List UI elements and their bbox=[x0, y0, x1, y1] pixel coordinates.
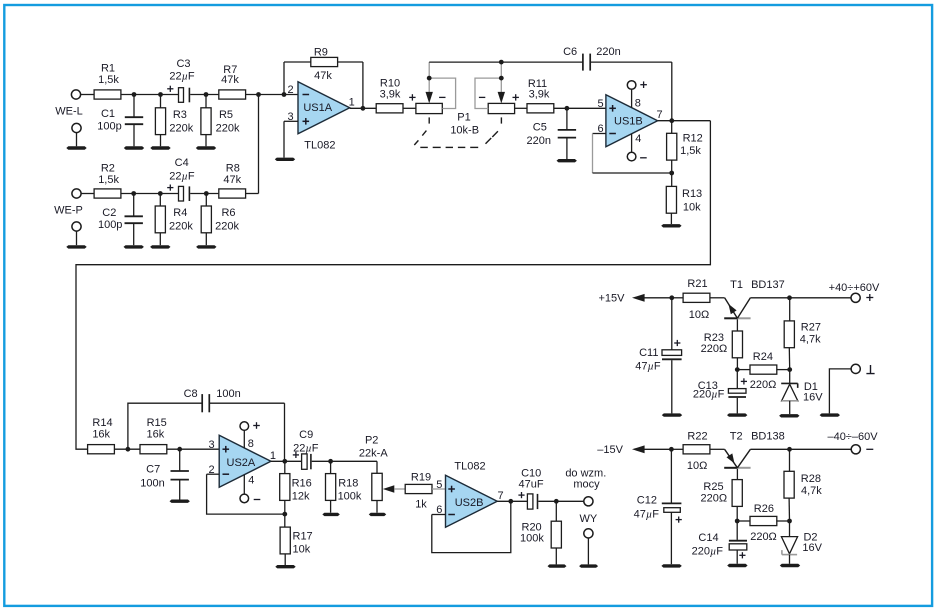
svg-text:220µF: 220µF bbox=[692, 546, 724, 558]
node junction R18 bbox=[328, 459, 333, 464]
svg-text:C5: C5 bbox=[533, 122, 547, 134]
ground bbox=[124, 146, 144, 149]
svg-text:R14: R14 bbox=[92, 417, 112, 429]
wire C8 feedback top bbox=[128, 403, 202, 449]
svg-text:220k: 220k bbox=[169, 221, 193, 233]
resistor R1 bbox=[94, 90, 121, 99]
wire bbox=[515, 107, 528, 109]
svg-text:C6: C6 bbox=[563, 46, 577, 58]
svg-text:P1: P1 bbox=[457, 111, 470, 123]
node line B junction bbox=[499, 60, 504, 65]
minus mark bbox=[439, 96, 445, 98]
node junction R12 R13 bbox=[669, 171, 674, 176]
wire bbox=[190, 193, 218, 195]
potentiometer P1 section a bbox=[416, 103, 442, 113]
wire bbox=[312, 460, 377, 462]
op-amp US2A bbox=[219, 435, 271, 487]
plus mark bbox=[513, 96, 519, 98]
ground bbox=[150, 245, 170, 248]
terminal chassis ground bbox=[851, 364, 860, 373]
node junction R6 bbox=[204, 191, 209, 196]
svg-text:R12: R12 bbox=[683, 133, 703, 145]
svg-text:7: 7 bbox=[498, 490, 504, 502]
svg-text:R27: R27 bbox=[801, 321, 821, 333]
wire pin 6 feedback bbox=[593, 133, 606, 135]
svg-text:C4: C4 bbox=[175, 157, 189, 169]
node junction R25 R26 C14 bbox=[735, 519, 740, 524]
P1a wiper bbox=[428, 62, 430, 92]
svg-text:US2A: US2A bbox=[227, 457, 256, 469]
ground bbox=[727, 413, 747, 416]
svg-text:1: 1 bbox=[270, 450, 276, 462]
svg-text:P2: P2 bbox=[365, 435, 378, 447]
wire from R8 up to top row bbox=[246, 193, 259, 195]
capacitor C3 electrolytic bbox=[167, 88, 173, 90]
node junction C8 tap bbox=[126, 447, 131, 452]
resistor R13 bbox=[671, 173, 673, 187]
svg-text:10k-B: 10k-B bbox=[450, 125, 479, 137]
resistor R9 bbox=[311, 57, 338, 66]
wire bbox=[121, 193, 179, 195]
capacitor C11 electrolytic bbox=[671, 298, 673, 350]
svg-text:R2: R2 bbox=[101, 162, 115, 174]
node wiper junction bbox=[427, 76, 432, 81]
pin 8 supply stub bbox=[631, 89, 633, 107]
wire R28 bbox=[789, 449, 791, 471]
resistor R18 bbox=[330, 461, 332, 473]
wire bbox=[81, 94, 95, 96]
zener diode D2 bbox=[789, 521, 791, 537]
svg-text:220k: 220k bbox=[216, 122, 240, 134]
wire T1 collector to rail bbox=[750, 297, 851, 299]
svg-text:220k: 220k bbox=[169, 122, 193, 134]
svg-text:US1B: US1B bbox=[614, 115, 643, 127]
node junction R3 bbox=[158, 92, 163, 97]
svg-text:C2: C2 bbox=[102, 207, 116, 219]
svg-text:+40÷+60V: +40÷+60V bbox=[829, 282, 880, 294]
resistor R10 bbox=[376, 104, 403, 113]
resistor R6 bbox=[205, 194, 207, 207]
svg-text:47µF: 47µF bbox=[635, 361, 661, 373]
P1b wiper bbox=[500, 62, 502, 92]
svg-text:220µF: 220µF bbox=[693, 388, 725, 400]
ground bbox=[275, 158, 295, 161]
wire bbox=[81, 193, 94, 195]
arrow +15V bbox=[632, 294, 645, 302]
wire R27 bbox=[789, 298, 791, 321]
resistor R22 bbox=[671, 448, 683, 450]
ground bbox=[548, 564, 567, 567]
svg-text:+15V: +15V bbox=[599, 293, 626, 305]
capacitor C10 electrolytic bbox=[518, 494, 524, 496]
ground bbox=[661, 564, 681, 567]
svg-text:220Ω: 220Ω bbox=[750, 531, 777, 543]
svg-text:22µF: 22µF bbox=[293, 443, 319, 455]
node junction R23 R24 C13 bbox=[735, 367, 740, 372]
svg-text:–40÷–60V: –40÷–60V bbox=[827, 431, 878, 443]
resistor R5 bbox=[205, 95, 207, 108]
arrow -15V bbox=[632, 445, 645, 453]
resistor R17 bbox=[284, 514, 286, 527]
svg-text:10k: 10k bbox=[293, 544, 311, 556]
svg-text:R3: R3 bbox=[173, 109, 187, 121]
svg-text:–15V: –15V bbox=[597, 444, 623, 456]
svg-text:C1: C1 bbox=[101, 108, 115, 120]
resistor R16 bbox=[284, 461, 286, 473]
svg-text:R21: R21 bbox=[687, 278, 707, 290]
wire T2 collector to rail bbox=[750, 448, 851, 450]
capacitor C7 bbox=[179, 449, 181, 471]
output ground terminal bbox=[584, 529, 593, 538]
svg-text:R28: R28 bbox=[801, 473, 821, 485]
node junction output US1B bbox=[669, 118, 674, 123]
node junction feedback R9 bbox=[282, 92, 287, 97]
resistor R8 bbox=[219, 189, 246, 198]
resistor R20 bbox=[555, 501, 557, 521]
svg-text:1,5k: 1,5k bbox=[680, 145, 701, 157]
resistor R12 bbox=[671, 121, 673, 134]
resistor R14 bbox=[88, 445, 115, 454]
svg-text:R4: R4 bbox=[173, 207, 187, 219]
svg-text:4: 4 bbox=[635, 133, 641, 145]
resistor R7 bbox=[219, 90, 246, 99]
svg-text:R16: R16 bbox=[292, 478, 312, 490]
svg-text:220Ω: 220Ω bbox=[701, 343, 728, 355]
resistor R3 bbox=[160, 95, 162, 108]
supply terminal circle - bbox=[240, 494, 249, 503]
gang dashed link P1 bbox=[428, 117, 430, 123]
svg-text:3,9k: 3,9k bbox=[529, 89, 550, 101]
svg-text:mocy: mocy bbox=[573, 479, 600, 491]
wire line B from wiper P1a bbox=[429, 61, 583, 63]
svg-text:C14: C14 bbox=[698, 532, 718, 544]
ground bbox=[727, 564, 747, 567]
capacitor C4 electrolytic bbox=[167, 187, 173, 189]
ground bbox=[662, 413, 682, 416]
wire pin 2 feedback bbox=[207, 473, 220, 475]
resistor R4 bbox=[159, 194, 161, 207]
output terminal WY bbox=[584, 497, 593, 506]
svg-text:R20: R20 bbox=[522, 521, 542, 533]
wire bbox=[114, 448, 140, 450]
pin 4 supply stub bbox=[631, 134, 633, 153]
wire R22 to T2 emitter bbox=[710, 448, 725, 450]
wire R11 to US1B pin 5 bbox=[554, 107, 606, 109]
supply terminal circle - bbox=[627, 152, 636, 161]
svg-text:5: 5 bbox=[597, 98, 603, 110]
svg-text:3: 3 bbox=[208, 439, 214, 451]
resistor R19 bbox=[405, 484, 432, 493]
node junction R28 bbox=[787, 447, 792, 452]
P2 wiper arrow bbox=[383, 485, 395, 492]
transistor T2 base stub bbox=[736, 469, 738, 480]
node junction C1 bbox=[132, 92, 137, 97]
terminal -40/-60V bbox=[851, 445, 860, 454]
capacitor C6 bbox=[582, 54, 584, 71]
zener diode D1 bbox=[789, 370, 791, 384]
svg-text:1,5k: 1,5k bbox=[98, 174, 119, 186]
svg-text:100n: 100n bbox=[140, 477, 164, 489]
capacitor C8 bbox=[201, 394, 203, 412]
capacitor C2 bbox=[133, 194, 135, 217]
svg-text:12k: 12k bbox=[292, 491, 310, 503]
capacitor C9 electrolytic bbox=[293, 454, 299, 456]
wire bbox=[538, 500, 584, 502]
svg-text:C8: C8 bbox=[184, 388, 198, 400]
ground bbox=[661, 224, 681, 227]
resistor R26 bbox=[737, 520, 750, 522]
feedback wire pin2 to R9 bbox=[283, 62, 285, 95]
P1a wiper tie to right end bbox=[429, 78, 455, 108]
wire R9 to output bbox=[338, 61, 363, 63]
capacitor C14 electrolytic bbox=[736, 521, 738, 540]
node junction R4 bbox=[158, 191, 163, 196]
svg-text:47µF: 47µF bbox=[634, 508, 660, 520]
svg-text:R22: R22 bbox=[687, 430, 707, 442]
svg-text:220Ω: 220Ω bbox=[750, 379, 777, 391]
svg-text:C11: C11 bbox=[639, 347, 658, 359]
capacitor C12 electrolytic bbox=[670, 449, 672, 502]
resistor R23 bbox=[732, 331, 742, 358]
wire long loop to lower-left stage bbox=[76, 121, 710, 450]
svg-text:C3: C3 bbox=[176, 58, 190, 70]
input terminal WE-L bbox=[71, 90, 80, 99]
resistor R11 bbox=[527, 104, 554, 113]
svg-text:4,7k: 4,7k bbox=[801, 485, 822, 497]
wire bbox=[190, 94, 218, 96]
svg-text:TL082: TL082 bbox=[304, 140, 335, 152]
node junction R5 bbox=[204, 92, 209, 97]
svg-text:220Ω: 220Ω bbox=[701, 492, 728, 504]
wire C6 to US1B output node bbox=[590, 61, 672, 63]
svg-text:R6: R6 bbox=[221, 207, 235, 219]
node junction C7 bbox=[177, 447, 182, 452]
ground bbox=[66, 146, 86, 149]
transistor T1 base stub bbox=[736, 319, 738, 331]
svg-text:R19: R19 bbox=[411, 471, 431, 483]
svg-text:4,7k: 4,7k bbox=[800, 334, 821, 346]
svg-text:R24: R24 bbox=[753, 351, 773, 363]
svg-text:R18: R18 bbox=[338, 478, 358, 490]
node junction C5 bbox=[565, 106, 570, 111]
ground bbox=[779, 414, 799, 417]
wire output pin 7 bbox=[658, 120, 711, 122]
wire op-amp output pin1 bbox=[350, 107, 377, 109]
svg-text:BD138: BD138 bbox=[751, 430, 785, 442]
svg-text:WE-P: WE-P bbox=[54, 204, 83, 216]
ground bbox=[150, 146, 170, 149]
pin 8 supply stub bbox=[243, 430, 245, 448]
svg-text:220n: 220n bbox=[527, 135, 551, 147]
svg-text:47k: 47k bbox=[314, 70, 332, 82]
svg-text:8: 8 bbox=[248, 438, 254, 450]
capacitor C13 electrolytic bbox=[736, 370, 738, 389]
wire pin 3 to ground bbox=[284, 120, 298, 122]
resistor R28 bbox=[784, 471, 794, 498]
ground bbox=[196, 146, 216, 149]
terminal +40/+60V bbox=[851, 293, 860, 302]
resistor R15 bbox=[140, 445, 167, 454]
node junction R28 D2 bbox=[787, 519, 792, 524]
svg-text:2: 2 bbox=[288, 84, 294, 96]
resistor R25 bbox=[732, 480, 742, 507]
node junction output US2B bbox=[508, 499, 513, 504]
wire R19 to US2B pin 5 bbox=[432, 488, 446, 490]
wire to op-amp US1A pin 2 bbox=[246, 94, 298, 96]
ground bbox=[275, 565, 295, 568]
P1b wiper tie to left end bbox=[475, 78, 501, 108]
ground bbox=[66, 245, 86, 248]
node junction C2 bbox=[131, 191, 136, 196]
wire R15 to US2A pin3 bbox=[167, 448, 220, 450]
ground bbox=[820, 413, 840, 416]
ground bbox=[170, 500, 190, 503]
svg-text:10Ω: 10Ω bbox=[687, 460, 707, 472]
supply terminal circle + bbox=[240, 422, 249, 431]
wire pin 6 feedback loop bbox=[432, 514, 446, 516]
svg-text:16k: 16k bbox=[147, 428, 165, 440]
svg-text:16k: 16k bbox=[92, 429, 110, 441]
svg-text:C7: C7 bbox=[146, 463, 160, 475]
svg-text:4: 4 bbox=[248, 474, 254, 486]
potentiometer P1 section b bbox=[488, 103, 514, 113]
svg-text:C10: C10 bbox=[521, 467, 541, 479]
ground bbox=[579, 564, 598, 567]
wire output pin 7 bbox=[497, 500, 527, 502]
resistor R21 bbox=[672, 297, 683, 299]
node wiper junction bbox=[499, 76, 504, 81]
supply terminal circle + bbox=[627, 81, 636, 90]
node junction C11 bbox=[669, 295, 674, 300]
node junction output US1A bbox=[361, 106, 366, 111]
svg-text:3,9k: 3,9k bbox=[380, 89, 401, 101]
svg-text:47k: 47k bbox=[221, 74, 239, 86]
svg-text:22k-A: 22k-A bbox=[359, 448, 388, 460]
svg-text:WY: WY bbox=[580, 513, 598, 525]
svg-text:220k: 220k bbox=[215, 221, 239, 233]
svg-text:TL082: TL082 bbox=[454, 460, 485, 472]
svg-text:100k: 100k bbox=[338, 491, 362, 503]
potentiometer P2 bbox=[376, 461, 378, 473]
svg-text:R25: R25 bbox=[703, 481, 723, 493]
resistor R24 bbox=[737, 369, 750, 371]
svg-text:C12: C12 bbox=[637, 495, 657, 507]
ground bbox=[124, 245, 144, 248]
svg-text:R8: R8 bbox=[226, 162, 240, 174]
node junction output US2A bbox=[282, 459, 287, 464]
wire terminal to ground bbox=[829, 369, 851, 414]
svg-text:7: 7 bbox=[657, 109, 663, 121]
wire bbox=[209, 402, 284, 404]
capacitor C5 bbox=[566, 108, 568, 130]
svg-text:US2B: US2B bbox=[455, 497, 484, 509]
svg-text:R5: R5 bbox=[219, 109, 233, 121]
svg-text:16V: 16V bbox=[802, 542, 822, 554]
op-amp US2B bbox=[446, 475, 498, 527]
ground bbox=[196, 245, 216, 248]
node junction C12 bbox=[669, 447, 674, 452]
node junction from R8 bbox=[256, 92, 261, 97]
ground bbox=[557, 159, 577, 162]
wire bbox=[776, 369, 789, 371]
svg-text:R15: R15 bbox=[147, 417, 167, 429]
svg-text:US1A: US1A bbox=[303, 102, 332, 114]
svg-text:1k: 1k bbox=[415, 498, 427, 510]
svg-text:R26: R26 bbox=[754, 503, 774, 515]
svg-text:100p: 100p bbox=[98, 219, 122, 231]
svg-text:R1: R1 bbox=[101, 62, 115, 74]
ground bbox=[322, 513, 340, 516]
ground bbox=[780, 564, 800, 567]
svg-text:10k: 10k bbox=[683, 201, 701, 213]
pin 4 supply stub bbox=[243, 475, 245, 494]
resistor R2 bbox=[94, 189, 121, 198]
plus mark bbox=[409, 96, 415, 98]
svg-text:C9: C9 bbox=[299, 429, 313, 441]
svg-text:1,5k: 1,5k bbox=[98, 74, 119, 86]
wire bbox=[776, 520, 789, 522]
svg-text:5: 5 bbox=[436, 479, 442, 491]
svg-text:R13: R13 bbox=[682, 188, 702, 200]
minus mark bbox=[479, 96, 485, 98]
terminal WE-P ground pin bbox=[72, 222, 81, 231]
svg-text:100k: 100k bbox=[520, 533, 544, 545]
node junction R27 D1 bbox=[787, 367, 792, 372]
op-amp US1A bbox=[298, 82, 350, 134]
svg-text:WE-L: WE-L bbox=[55, 106, 83, 118]
wire bbox=[121, 94, 179, 96]
input terminal WE-P bbox=[72, 189, 81, 198]
svg-text:47uF: 47uF bbox=[519, 479, 544, 491]
svg-text:16V: 16V bbox=[803, 391, 823, 403]
svg-text:10Ω: 10Ω bbox=[689, 309, 709, 321]
svg-text:47k: 47k bbox=[223, 174, 241, 186]
svg-text:100n: 100n bbox=[216, 388, 240, 400]
svg-text:100p: 100p bbox=[97, 121, 121, 133]
svg-text:22µF: 22µF bbox=[169, 170, 195, 182]
svg-text:22µF: 22µF bbox=[169, 71, 195, 83]
svg-text:R17: R17 bbox=[293, 531, 313, 543]
capacitor C1 bbox=[133, 95, 135, 118]
op-amp US1B bbox=[606, 95, 658, 147]
svg-text:8: 8 bbox=[635, 98, 641, 110]
terminal WE-L ground pin bbox=[72, 123, 81, 132]
svg-text:BD137: BD137 bbox=[751, 279, 785, 291]
node junction R20 bbox=[554, 499, 559, 504]
wire bbox=[403, 107, 416, 109]
wire R21 to T1 emitter bbox=[710, 297, 725, 299]
svg-text:R9: R9 bbox=[314, 47, 328, 59]
resistor R27 bbox=[784, 321, 794, 348]
svg-text:1: 1 bbox=[349, 96, 355, 108]
svg-text:T2: T2 bbox=[730, 430, 743, 442]
svg-text:T1: T1 bbox=[730, 279, 743, 291]
node junction R27 bbox=[787, 295, 792, 300]
wire output pin 1 bbox=[271, 460, 302, 462]
ground bbox=[369, 513, 387, 516]
svg-text:220n: 220n bbox=[596, 46, 620, 58]
node junction R16 R17 bbox=[282, 512, 287, 517]
svg-text:do wzm.: do wzm. bbox=[565, 467, 606, 479]
